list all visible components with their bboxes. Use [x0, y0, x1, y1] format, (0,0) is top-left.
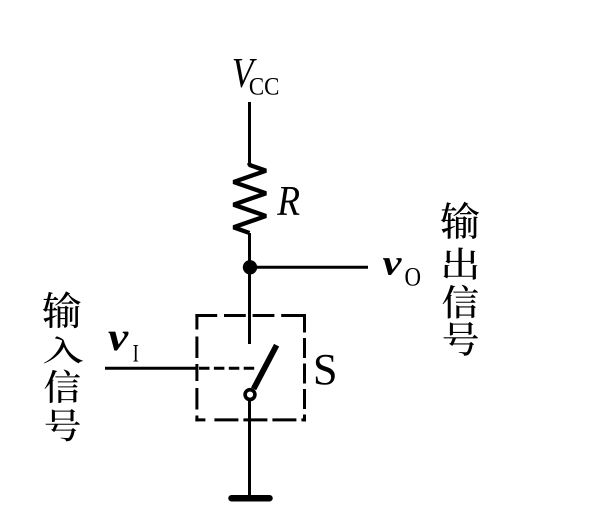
svg-text:S: S [313, 345, 338, 394]
svg-text:CC: CC [249, 73, 280, 100]
svg-text:v: v [108, 314, 130, 359]
svg-text:R: R [276, 179, 300, 225]
svg-text:I: I [133, 339, 139, 368]
svg-text:O: O [405, 263, 422, 292]
svg-text:v: v [383, 243, 403, 283]
